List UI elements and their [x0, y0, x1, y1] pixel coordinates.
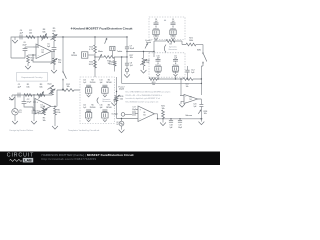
wire right column x116.5: [116, 77, 118, 96]
resistor R14: [114, 57, 116, 61]
svg-text:C8: C8: [155, 19, 157, 21]
svg-text:http://circuitlab.com/c/7d8477: http://circuitlab.com/c/7d8477bbfb59: [42, 157, 97, 161]
footer bar: [0, 152, 220, 166]
svg-text:1µF: 1µF: [130, 65, 133, 67]
ground GB2: [14, 115, 16, 121]
svg-text:C9: C9: [172, 19, 174, 21]
svg-text:10k: 10k: [26, 86, 29, 88]
svg-text:Output: Output: [112, 112, 119, 115]
svg-text:741: 741: [143, 114, 146, 116]
svg-text:10µF: 10µF: [178, 127, 182, 129]
svg-text:47µF: 47µF: [27, 102, 32, 104]
svg-text:.1µF: .1µF: [99, 107, 102, 109]
wire feedback A: [33, 51, 52, 62]
capacitor C18: [170, 119, 172, 120]
port OUT1: [126, 65, 128, 69]
svg-text:2N7000: 2N7000: [106, 107, 112, 109]
svg-text:M4: M4: [108, 80, 110, 82]
capacitor C3 .1uF: [33, 102, 35, 111]
resistor R10 1M: [28, 54, 33, 56]
wire mute row: [95, 56, 127, 58]
svg-text:M3: M3: [91, 80, 93, 82]
node A1: [37, 36, 38, 37]
wire H6 + resistor R12: [57, 90, 80, 106]
ground GV2: [121, 126, 123, 130]
capacitor C5: [53, 41, 55, 47]
svg-text:Design by Kurtus Richter: Design by Kurtus Richter: [10, 129, 34, 132]
transistor M5: [85, 113, 91, 119]
svg-text:.1µF: .1µF: [99, 82, 102, 84]
ground GB3: [31, 121, 37, 124]
dashed box clipping stage 1: [80, 77, 114, 124]
svg-text:LAB: LAB: [24, 159, 32, 163]
svg-text:M6: M6: [108, 105, 110, 107]
wire rail B: [12, 94, 52, 96]
wire H3: [127, 51, 154, 53]
resistor R23: [149, 78, 157, 81]
ground GB1: [11, 95, 13, 97]
svg-text:1µF: 1µF: [170, 127, 173, 129]
wires box2 out: [156, 40, 175, 41]
transistor M3: [85, 88, 91, 94]
wire top rail A: [15, 36, 127, 38]
resistor R21 100k: [175, 41, 186, 45]
resistor R27: [166, 40, 175, 43]
svg-text:Depth: Depth: [119, 88, 124, 91]
svg-text:C16: C16: [99, 105, 102, 107]
svg-text:10k: 10k: [152, 84, 155, 86]
wire V1 trunk: [62, 37, 64, 71]
mosfet M2 (mute switch): [110, 46, 115, 50]
potentiometer R2 50k: [37, 94, 45, 97]
ground GA1: [14, 37, 16, 40]
transistor M4: [102, 88, 108, 94]
svg-text:SW1: SW1: [197, 49, 201, 51]
ground GA3: [53, 65, 55, 71]
svg-text:C10: C10: [157, 56, 160, 58]
svg-text:Treble: Treble: [117, 51, 123, 53]
svg-text:Symmetric: Symmetric: [169, 46, 177, 49]
wire left loop: [11, 37, 25, 58]
svg-text:fuzz dist ckt, depth/vol, cycl: fuzz dist ckt, depth/vol, cycle MOSFET I…: [126, 97, 161, 100]
transistor M6: [102, 113, 108, 119]
svg-text:Input: Input: [9, 98, 14, 101]
ground G-out1: [126, 72, 128, 75]
svg-text:4-Knobed MOSFET Fuzz/Distortio: 4-Knobed MOSFET Fuzz/Distortion Circuit: [71, 26, 133, 30]
resistor R6: [54, 106, 56, 108]
svg-text:1µF: 1µF: [193, 106, 196, 108]
source V1: [14, 95, 16, 109]
wires box3 out: [158, 76, 176, 79]
svg-text:2N7000: 2N7000: [90, 107, 96, 109]
svg-text:2N7000: 2N7000: [106, 82, 112, 84]
svg-text:741: 741: [41, 52, 44, 54]
wire to ground right: [121, 57, 123, 83]
potentiometer R5: [43, 106, 45, 108]
svg-text:Germanium: Germanium: [102, 100, 111, 103]
symmetric annotation center: [97, 98, 99, 104]
dashed box clipping stage 2: [149, 17, 185, 40]
ground G-f1: [143, 66, 145, 70]
op-amp U3: [184, 95, 198, 104]
capacitor C8: [125, 63, 129, 65]
experimental circuitry box: [17, 73, 48, 82]
svg-text:10k: 10k: [58, 62, 61, 64]
svg-text:.1µF: .1µF: [83, 107, 86, 109]
svg-text:Experimental Circuitry: Experimental Circuitry: [22, 76, 44, 79]
wire to + input: [36, 37, 38, 47]
svg-text:10k: 10k: [57, 112, 60, 114]
pot wiper arrow to rail: [105, 38, 107, 44]
wire H4a: [157, 78, 201, 80]
svg-text:4.7k: 4.7k: [89, 49, 93, 51]
ground GU3: [180, 101, 182, 104]
wire to H3 / box3: [154, 41, 156, 57]
svg-text:.1µF: .1µF: [83, 82, 86, 84]
symmetric annotation: [164, 45, 166, 53]
ground GB4: [54, 115, 56, 126]
node B1: [33, 94, 34, 95]
ground GA2: [27, 63, 29, 66]
ground GR25: [162, 119, 164, 123]
resistor R13: [94, 37, 96, 45]
switch SW2 on trunk: [62, 71, 63, 72]
wire H4b: [122, 82, 202, 84]
svg-text:10k: 10k: [66, 86, 69, 88]
svg-text:10k: 10k: [42, 120, 45, 122]
svg-text:R3+R5 = R4 + R5 = 2N6000/BS-2: R3+R5 = R4 + R5 = 2N6000/BS-2 MOSFETs it: [126, 94, 163, 97]
capacitor C7 column x127: [126, 37, 128, 47]
svg-text:C11: C11: [174, 56, 177, 58]
dashed box clipping stage 3: [149, 53, 185, 77]
wire H7: [158, 118, 202, 120]
resistor R24 feedback: [183, 78, 193, 81]
svg-text:2N7000: 2N7000: [90, 82, 96, 84]
svg-text:100k: 100k: [189, 40, 193, 42]
svg-text:Mute: Mute: [98, 50, 104, 53]
svg-text:10k: 10k: [186, 86, 189, 88]
svg-text:Templates Verified by CircuitL: Templates Verified by CircuitLab: [68, 129, 100, 132]
svg-text:R2 = OPA/TUNER level GMOS dual: R2 = OPA/TUNER level GMOS dual MOSFET pr…: [126, 91, 172, 94]
svg-text:100k: 100k: [89, 64, 93, 66]
svg-text:741: 741: [189, 99, 192, 101]
node mute: [94, 53, 96, 60]
svg-text:50k: 50k: [120, 99, 123, 101]
potentiometer R19 fuzz1 depth: [143, 52, 145, 59]
svg-text:10k: 10k: [204, 113, 207, 115]
wire trunk lower: [200, 99, 202, 119]
svg-text:U3: U3: [190, 96, 192, 98]
svg-text:U4: U4: [143, 112, 145, 114]
svg-text:2N7000: 2N7000: [71, 55, 77, 57]
svg-text:M5: M5: [91, 105, 93, 107]
svg-text:Germanium: Germanium: [168, 48, 177, 51]
resistor R15: [104, 56, 114, 59]
svg-text:C15: C15: [83, 105, 86, 107]
svg-text:50k: 50k: [42, 32, 45, 34]
source V2 bias: [121, 119, 123, 122]
capacitor C20 on trunk: [199, 105, 203, 107]
resistor R16: [94, 60, 96, 68]
capacitor C19: [179, 119, 181, 120]
potentiometer R4 50k right: [51, 88, 54, 95]
svg-text:C13: C13: [83, 80, 86, 82]
capacitor C12 1uF: [187, 66, 189, 70]
op-amp U2: [36, 44, 52, 59]
svg-text:C14: C14: [99, 80, 102, 82]
ground G-f2: [114, 101, 116, 103]
svg-text:R4 = N2N5100 level IoT sw op a: R4 = N2N5100 level IoT sw op amp IC set: [126, 101, 159, 104]
svg-text:50k: 50k: [52, 30, 55, 32]
svg-text:Depth: Depth: [146, 41, 151, 44]
svg-text:50k: 50k: [39, 86, 42, 88]
svg-text:10k: 10k: [29, 33, 32, 35]
capacitor C2 47uF: [23, 95, 25, 102]
potentiometer R11 10k: [53, 58, 56, 64]
op-amp U1: [35, 99, 51, 115]
svg-text:10k: 10k: [161, 108, 164, 110]
svg-text:Volume: Volume: [185, 115, 193, 117]
ground G-vol: [200, 119, 202, 122]
potentiometer R8 50k: [40, 36, 48, 39]
capacitor C17: [133, 111, 135, 116]
wire to U4 inverting input: [117, 101, 137, 119]
svg-text:10k: 10k: [130, 57, 133, 59]
capacitor C6 47uF: [25, 46, 33, 48]
op-amp U4: [138, 106, 155, 122]
svg-text:1.0k: 1.0k: [109, 64, 112, 66]
